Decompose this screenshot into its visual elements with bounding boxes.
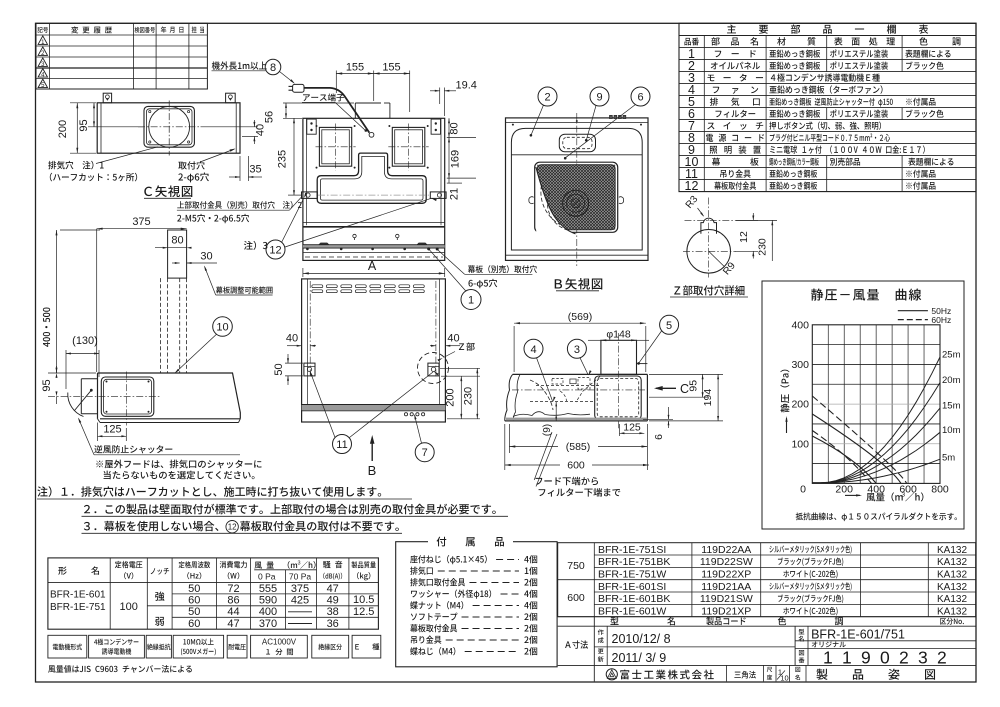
graph x axis title [845,494,860,496]
power cord and plug [304,88,369,133]
svg-text:0 Pa: 0 Pa [258,572,276,582]
svg-text:370: 370 [259,618,277,630]
svg-text:125: 125 [623,421,641,433]
motor spec row [48,635,87,658]
svg-text:3: 3 [298,561,301,567]
svg-text:590: 590 [259,595,277,607]
Z-part dashed circle [418,353,449,384]
title block A-dim cell [565,640,588,648]
svg-text:10.5: 10.5 [353,594,374,606]
svg-text:12: 12 [228,523,237,532]
svg-text:40: 40 [255,124,267,136]
svg-text:1 1 9 0 2 3 2: 1 1 9 0 2 3 2 [823,648,949,668]
earth terminal label [303,93,344,101]
svg-text:95: 95 [78,119,90,131]
svg-text:5: 5 [666,320,672,332]
svg-text:400: 400 [259,606,277,618]
label makuita adjustable range [216,286,273,293]
lower band and switch [302,405,446,410]
balloon 6 [631,87,650,106]
bottom view duct side step [637,363,648,365]
svg-text:80: 80 [171,235,183,247]
svg-text:5m: 5m [942,453,955,464]
label hood bottom to filter bottom [536,477,598,486]
title block dates [598,629,604,635]
svg-text:2010/12/ 8: 2010/12/ 8 [612,632,671,646]
svg-text:95: 95 [41,379,53,391]
bottom view bottom gray band [506,418,647,421]
upper view lower band [303,221,445,223]
svg-text:375: 375 [291,583,309,595]
side view dimension 30 [172,262,180,264]
upper view T-shaped emboss [317,153,426,203]
svg-text:AC1000V: AC1000V [262,638,297,647]
svg-text:555: 555 [259,583,277,595]
Z detail dimension 12 [736,219,758,221]
bottom view body [513,373,648,375]
svg-text:6: 6 [653,434,665,440]
svg-text:KA132: KA132 [937,570,967,581]
bottom view dimension 6 [643,418,673,420]
Z detail label R9 [709,251,725,266]
dimension 50 left [285,362,303,364]
balloon 10 [213,317,233,337]
svg-text:B: B [368,463,377,478]
title block structure [558,625,976,627]
svg-text:119D21XP: 119D21XP [701,606,751,618]
svg-text:230: 230 [463,387,475,405]
balloon 4 [524,339,543,358]
note 2 [84,504,496,515]
svg-text:38: 38 [327,606,339,618]
svg-text:80: 80 [449,122,461,134]
svg-text:KA132: KA132 [937,607,967,618]
graph duct resistance curves [812,357,940,483]
B view latch tabs [529,197,534,204]
variant table [558,543,976,617]
svg-text:1: 1 [468,294,474,306]
B view top vents [610,115,613,118]
svg-text:50: 50 [188,606,200,618]
graph plot area and grid [827,325,829,484]
svg-text:200: 200 [57,120,69,138]
parts table part names [715,50,756,57]
upper view screw dots around openings [316,125,318,127]
parts table title [727,24,928,33]
svg-text:12.5: 12.5 [353,606,374,618]
main parts list table [679,23,976,191]
Z detail title [674,285,744,295]
svg-text:12: 12 [269,244,281,256]
graph fan curves [812,414,901,483]
svg-text:A: A [368,259,377,273]
spec table headers [58,566,99,574]
svg-text:20m: 20m [942,375,961,386]
upper view right square opening [392,127,425,166]
balloon 11 [333,435,352,454]
dimension 40 right [430,345,436,347]
svg-text:44: 44 [227,606,239,618]
bracket centerline [318,194,429,196]
projection method cell [734,671,755,679]
svg-text:800: 800 [931,484,949,496]
svg-text:KA132: KA132 [937,594,967,605]
svg-text:95: 95 [688,380,700,392]
svg-text:BFR-1E-751BK: BFR-1E-751BK [598,556,670,568]
svg-text:4: 4 [530,344,536,356]
svg-text:70 Pa: 70 Pa [289,572,311,582]
C view body (top panel) [97,103,240,153]
svg-text:119D22AA: 119D22AA [701,544,751,556]
upper view duct adapter top [354,103,356,118]
note below spec table [48,665,192,673]
balloon 7 [415,443,434,462]
spec table [48,558,379,629]
svg-text:50: 50 [188,583,200,595]
revision marks (triangles) [38,36,47,45]
bottom view lamp and switch hidden [570,379,576,384]
balloon 8 and cord length note [212,61,267,69]
hanging brackets item 11 [304,363,315,376]
side view dimension 80 [155,247,187,249]
upper view side brackets [302,192,318,199]
svg-text:10m: 10m [942,425,961,436]
side view dimension 375 [97,228,187,230]
svg-text:100: 100 [120,601,138,613]
upper view corner plates [307,119,316,134]
svg-text:35: 35 [249,164,261,176]
title block drawing number [799,650,804,655]
B view inner panel [511,128,642,250]
C view dimension 35 [239,156,241,181]
svg-text:200: 200 [835,484,853,496]
svg-text:3: 3 [574,344,580,356]
bottom view dimension (585) [508,424,510,453]
drawing name cell [795,667,800,672]
company name [620,670,713,680]
dimension 40 left [287,345,302,347]
svg-text:72: 72 [227,583,239,595]
bottom view filter from below [595,376,642,419]
B view title [555,278,603,290]
right dimensions 80 169 21 [447,137,476,139]
label upper mounting bracket holes note 2 [177,201,301,209]
title block model name [799,629,805,635]
svg-text:11: 11 [336,439,347,451]
Z detail keyhole [687,230,731,274]
fuji logo [606,669,617,680]
svg-text:200: 200 [791,399,809,411]
lower view body [302,279,446,422]
note 3 [84,521,219,531]
bottom view dimension (9) [555,402,557,421]
C view mounting tabs [103,93,111,103]
B view center line [576,113,578,266]
svg-text:47: 47 [327,583,339,595]
svg-text:36: 36 [327,618,339,630]
svg-text:KA132: KA132 [937,545,967,556]
svg-text:119D21AA: 119D21AA [701,581,751,593]
svg-text:119D21SW: 119D21SW [700,593,753,605]
dimension 155 155 top [335,71,337,94]
svg-text:2: 2 [544,91,550,103]
svg-text:BFR-1E-751: BFR-1E-751 [50,602,106,613]
svg-text:425: 425 [291,595,309,607]
svg-text:49: 49 [327,595,339,607]
svg-text:60Hz: 60Hz [931,315,951,325]
svg-text:(130): (130) [72,335,98,347]
svg-text:30: 30 [200,251,212,263]
note outdoor hood warning [96,460,261,469]
upper view left square opening [319,127,351,166]
svg-text:10: 10 [216,321,228,333]
svg-text:155: 155 [382,62,400,74]
bottom view duct phi148 [601,340,637,374]
bottom view freehand bottom wave [513,412,590,417]
label makuita mounting holes [468,265,537,273]
C view dimension 40 [201,126,259,128]
svg-text:230: 230 [757,238,769,256]
side view left dimensions 400-500 and 95 [60,229,100,231]
side view duct top solid [168,230,187,278]
bottom view dimensions 95 194 [649,373,723,375]
balloon 3 [567,339,586,358]
svg-text:8: 8 [270,62,276,74]
svg-text:0: 0 [800,484,806,496]
svg-text:56: 56 [264,111,276,123]
svg-text:10: 10 [780,674,788,683]
side view duct dashed telescoping [160,278,162,372]
C view dimension 95 [88,126,143,128]
svg-text:750: 750 [567,560,585,572]
svg-text:86: 86 [227,595,239,607]
svg-text:169: 169 [450,150,462,168]
svg-text:(585): (585) [566,441,591,453]
bottom view dimension 600 [504,424,506,470]
svg-text:60: 60 [188,595,200,607]
C view direction arrow [656,387,676,389]
balloon 5 [660,315,679,334]
svg-text:BFR-1E-601SI: BFR-1E-601SI [598,581,666,593]
svg-text:BFR-1E-751SI: BFR-1E-751SI [598,544,666,556]
svg-text:7: 7 [422,447,428,459]
graph legend [898,310,928,312]
accessories items [410,555,487,564]
C view exhaust opening [144,106,194,147]
svg-text:40: 40 [286,333,298,345]
accessories box [396,542,557,667]
scale cell [767,667,772,672]
balloon 2 [538,87,557,106]
C view label mounting holes [178,161,204,169]
svg-text:BFR-1E-601: BFR-1E-601 [50,590,106,601]
parts table materials and finishes [769,50,820,58]
svg-text:BFR-1E-751W: BFR-1E-751W [598,569,666,581]
svg-text:47: 47 [227,618,239,630]
balloon 9 [590,87,609,106]
svg-text:155: 155 [346,62,364,74]
balloon 1 [461,290,481,310]
svg-text:235: 235 [277,150,289,168]
earth terminal [369,132,374,137]
svg-text:125: 125 [103,424,121,436]
svg-text:100: 100 [791,438,809,450]
dimension A [302,268,304,277]
upper view body [303,118,445,260]
svg-text:400: 400 [791,319,809,331]
svg-text:200: 200 [445,388,457,406]
B view arrow [371,438,373,462]
graph outer box [762,281,964,529]
side view exhaust outlet protrusion [81,378,97,380]
svg-text:119D22XP: 119D22XP [701,569,751,581]
backdraft shutter flap and arc [90,389,93,392]
svg-text:50: 50 [273,363,285,375]
B view filter with hatch [537,165,615,230]
note 3 and balloon 12 [244,241,268,250]
svg-text:(569): (569) [568,311,593,323]
side view dimension 125 [97,423,99,442]
svg-text:2011/ 3/ 9: 2011/ 3/ 9 [612,651,667,665]
svg-text:KA132: KA132 [937,582,967,593]
B view fan exposed area [536,167,576,234]
svg-text:BFR-1E-601W: BFR-1E-601W [598,606,666,618]
svg-text:BFR-1E-601BK: BFR-1E-601BK [598,593,670,605]
svg-text:KA132: KA132 [937,557,967,568]
vent slots [312,285,323,288]
C view title [144,185,192,197]
svg-text:19.4: 19.4 [456,80,477,92]
svg-text:300: 300 [791,359,809,371]
C view label exhaust holes [48,161,103,170]
svg-text:3: 3 [902,492,906,499]
svg-text:21: 21 [449,188,461,200]
dimensions 200 230 right [440,367,480,369]
label backdraft shutter [94,445,172,453]
note 1 [37,486,381,497]
svg-text:6: 6 [637,91,643,103]
Z detail dimension 230 [736,219,777,221]
B view lamp [559,134,595,152]
B view outer body [506,118,649,261]
svg-text:60: 60 [188,618,200,630]
side view rear opening [101,377,154,416]
bottom view dimension 125 [619,424,621,436]
bottom view dimension (569) [513,326,515,372]
B view fan hub [563,190,589,216]
graph note [796,512,957,521]
variant table footer headers [610,617,675,625]
svg-text:40: 40 [447,333,459,345]
dimension 19.4 [439,88,441,105]
svg-text:12: 12 [685,179,699,193]
svg-text:25m: 25m [942,350,961,361]
svg-text:119D22SW: 119D22SW [700,556,753,568]
svg-text:375: 375 [132,216,150,228]
svg-text:BFR-1E-601/751: BFR-1E-601/751 [811,628,905,642]
graph title [811,289,921,301]
side view hood body [98,373,241,419]
B view fan scroll dashed arcs [547,193,569,231]
C view dimension 200 [70,102,96,104]
revision history table [36,23,207,89]
parts table headers [684,38,698,46]
svg-text:600: 600 [567,592,585,604]
svg-text:12: 12 [738,231,750,243]
company row [726,665,728,681]
svg-text:600: 600 [567,460,585,472]
left dimensions 56 235 [283,102,354,104]
graph y axis title [780,370,789,413]
svg-text:9: 9 [596,91,602,103]
svg-text:15m: 15m [942,401,961,412]
svg-text:194: 194 [702,389,714,407]
